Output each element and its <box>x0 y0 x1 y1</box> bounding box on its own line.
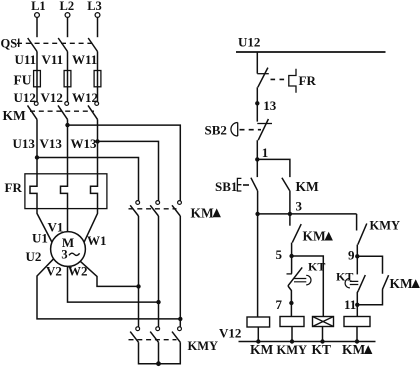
wire motor V2 to KMY pole 2 <box>68 266 159 302</box>
svg-text:3: 3 <box>61 248 67 262</box>
contactor KM linkage (dashed) <box>30 110 94 112</box>
thermal relay FR box <box>25 174 107 209</box>
svg-text:U12: U12 <box>14 90 36 105</box>
pushbutton SB1 operator <box>237 178 241 191</box>
wire U13 to KM-delta pole 1 <box>37 158 139 201</box>
svg-text:U11: U11 <box>15 52 37 67</box>
wire KT contact to node 7 <box>288 286 291 303</box>
svg-text:L2: L2 <box>60 0 75 13</box>
KT NO time-delay contact <box>345 256 365 290</box>
node U13 junction <box>35 155 39 159</box>
svg-text:KMY: KMY <box>277 343 308 357</box>
KM-delta main contact pole 3 <box>172 201 181 216</box>
svg-text:W1: W1 <box>87 233 107 248</box>
wire KMY coil to rail <box>291 327 293 342</box>
disconnect switch QS linkage (dashed) <box>17 42 96 44</box>
wire KM-delta parallel contact to node 11 <box>357 290 382 305</box>
node 1 <box>255 145 268 162</box>
wire KMY star-point bar <box>139 342 181 363</box>
wire node 3 to KM coil <box>257 214 259 317</box>
wire L2 to QS <box>67 18 69 38</box>
svg-text:3: 3 <box>296 198 303 213</box>
svg-text:KM: KM <box>390 276 414 291</box>
wire KM aux to node 3 <box>289 191 291 214</box>
svg-text:KT: KT <box>308 260 325 274</box>
wire QS to KM pole 1 (through fuse) <box>36 52 38 102</box>
svg-text:9: 9 <box>348 247 355 262</box>
motor M1 (3-phase) <box>51 232 86 267</box>
wire node 7 to KMY coil <box>290 303 292 317</box>
wire SB2 to node 1 <box>256 140 258 159</box>
node W13 junction <box>95 139 99 143</box>
node U2 junction <box>178 317 182 321</box>
wire node 3 to KM-delta aux <box>289 214 291 226</box>
wire node 3 horizontal <box>258 213 357 215</box>
KMY main contact pole 3 <box>172 327 181 342</box>
svg-text:V13: V13 <box>40 136 63 151</box>
KM aux NO contact (seal-in) <box>282 178 290 191</box>
pushbutton SB2 NC contact <box>257 119 272 140</box>
node 9 <box>348 247 359 262</box>
wire L1 to QS <box>36 18 38 38</box>
svg-text:SB1: SB1 <box>215 179 237 194</box>
QS pole 2 blade <box>58 38 67 52</box>
coil KM-delta <box>344 317 370 327</box>
svg-text:KM: KM <box>296 179 320 194</box>
svg-text:7: 7 <box>276 297 283 312</box>
svg-text:U2: U2 <box>26 249 42 264</box>
wire SB1 to node 3 <box>257 191 259 214</box>
wire KM pole 2 to FR <box>67 119 69 173</box>
svg-text:V1: V1 <box>48 220 64 235</box>
FR heater element pole 2 <box>61 174 68 209</box>
KMY main contact pole 2 <box>150 327 159 342</box>
FR heater element pole 1 <box>30 174 37 209</box>
label KM-delta (coil) <box>342 342 372 357</box>
svg-text:KT: KT <box>336 269 353 283</box>
node 11 <box>344 297 359 312</box>
KM-delta main contact pole 1 <box>130 201 139 216</box>
wire KMY aux to node 9 <box>356 245 358 257</box>
node 13 <box>255 98 277 113</box>
node 3 <box>288 198 303 216</box>
svg-text:KM: KM <box>303 229 327 244</box>
QS pole 3 blade <box>88 38 97 52</box>
KM-delta aux NO contact <box>292 224 301 243</box>
wire QS to KM pole 2 (through fuse) <box>67 52 69 102</box>
wire KM pole 3 to FR <box>97 119 99 173</box>
coil KMY <box>280 317 304 327</box>
SB1 linkage (dashed) <box>243 184 250 186</box>
wire L3 to QS <box>97 18 99 38</box>
svg-text:KM: KM <box>342 342 366 357</box>
KM-delta main contact pole 2 <box>150 201 159 216</box>
wire FR contact to SB2 <box>256 87 258 121</box>
wire node 1 to SB1 <box>256 159 258 177</box>
QS pole 1 blade <box>28 38 37 52</box>
wire FR to motor W1 <box>84 209 97 242</box>
fuse FU pole 3 <box>94 71 101 87</box>
node KM coil rail junction <box>256 339 260 343</box>
node star point <box>156 361 161 366</box>
pushbutton SB1 NO contact <box>251 178 258 191</box>
svg-text:KT: KT <box>312 342 332 357</box>
svg-text:FR: FR <box>299 73 317 88</box>
svg-text:W12: W12 <box>72 90 98 105</box>
label KM-delta (aux) <box>303 229 333 244</box>
svg-text:11: 11 <box>344 297 356 312</box>
KM main contact pole 1 <box>28 102 39 120</box>
wire KT NO contact to node 11 <box>357 291 358 305</box>
svg-text:U1: U1 <box>32 231 48 246</box>
terminal L3 <box>87 0 102 17</box>
KT NC time-delay contact <box>287 256 312 286</box>
svg-text:L1: L1 <box>31 0 46 13</box>
label KM-delta (parallel contact) <box>390 276 420 291</box>
fuse FU pole 2 <box>64 71 71 87</box>
wire KM pole 1 to FR <box>36 119 38 173</box>
KM main contact pole 2 <box>58 102 69 120</box>
coil KT (time relay) <box>313 317 334 327</box>
KMY main contact pole 1 <box>130 327 139 342</box>
node 7 <box>276 297 294 312</box>
svg-text:KMY: KMY <box>188 339 219 353</box>
svg-text:U13: U13 <box>13 136 36 151</box>
wire QS to KM pole 3 (through fuse) <box>97 52 99 102</box>
wire node 11 to KM-delta coil <box>356 305 358 317</box>
wire KM-delta coil to rail <box>356 327 358 342</box>
wire FR to motor V1 <box>67 209 69 232</box>
FR contact linkage (dashed) <box>271 78 287 80</box>
contactor KMY linkage (dashed) <box>129 339 177 341</box>
fuse FU pole 1 <box>34 71 41 87</box>
FR trip element symbol <box>289 69 296 93</box>
svg-text:KM: KM <box>250 342 274 357</box>
wire KM-delta pole 2 to KMY pole 2 <box>158 216 160 327</box>
contactor KM-delta linkage (dashed) <box>129 208 177 210</box>
wire node 1 to KM aux branch <box>257 159 290 177</box>
wire node 3 to KMY aux <box>356 214 358 231</box>
terminal L2 <box>60 0 75 17</box>
svg-text:KM: KM <box>3 108 27 123</box>
node V2 junction <box>156 300 160 304</box>
svg-text:V11: V11 <box>42 52 64 67</box>
KMY aux NO contact <box>358 224 367 245</box>
FR heater element pole 3 <box>91 174 98 209</box>
svg-text:U12: U12 <box>238 35 260 50</box>
SB2 linkage (dashed) <box>240 129 262 131</box>
wire motor W2 to KMY pole 1 <box>80 261 138 286</box>
wire V13 to KM-delta pole 3 <box>68 125 181 201</box>
wire motor U2 to KMY pole 3 <box>37 259 180 319</box>
wire KM-delta pole 1 to KMY pole 1 <box>138 216 140 327</box>
svg-text:13: 13 <box>263 98 277 113</box>
wire control return rail V12 <box>239 341 376 343</box>
wire node 5 to KT coil <box>292 256 324 316</box>
wire KM-delta aux to node 5 <box>291 243 293 256</box>
svg-text:V2: V2 <box>46 264 62 279</box>
coil KM <box>247 317 270 327</box>
wire KT coil to rail <box>322 327 324 342</box>
svg-text:L3: L3 <box>87 0 102 13</box>
KM main contact pole 3 <box>88 102 99 120</box>
svg-text:W11: W11 <box>72 52 97 67</box>
svg-text:QS: QS <box>1 36 18 50</box>
svg-text:KM: KM <box>191 205 215 220</box>
wire KM-delta pole 3 to KMY pole 3 <box>179 216 181 327</box>
wire control supply rail U12 <box>236 51 386 53</box>
node KM-delta coil rail junction <box>355 339 359 343</box>
svg-text:FR: FR <box>5 180 23 195</box>
svg-text:KMY: KMY <box>370 219 401 233</box>
svg-text:5: 5 <box>276 247 283 262</box>
svg-text:1: 1 <box>262 145 269 160</box>
wire node 9 to KM-delta parallel contact <box>357 256 382 273</box>
node W2 junction <box>136 284 140 288</box>
node V13 junction <box>65 123 69 127</box>
svg-text:SB2: SB2 <box>205 122 227 137</box>
pushbutton SB2 operator <box>231 123 238 137</box>
svg-text:V12: V12 <box>41 90 63 105</box>
wire W13 to KM-delta pole 2 <box>98 141 159 200</box>
wire KM coil to rail <box>257 327 259 342</box>
svg-text:W13: W13 <box>71 136 98 151</box>
node KMY coil rail junction <box>290 339 294 343</box>
KM-delta parallel NO contact <box>382 275 388 289</box>
node KT coil rail junction <box>320 339 324 343</box>
label KM-delta (main) <box>191 205 221 220</box>
FR NC contact (control) <box>257 68 269 88</box>
node SB1 bottom junction <box>255 212 259 216</box>
QS operating handle <box>18 39 20 48</box>
terminal L1 <box>31 0 46 17</box>
svg-text:V12: V12 <box>219 326 241 341</box>
node 5 <box>276 247 294 262</box>
wire rail to FR contact <box>256 52 258 74</box>
svg-text:FU: FU <box>14 73 32 88</box>
wire FR to motor U1 <box>37 209 52 242</box>
